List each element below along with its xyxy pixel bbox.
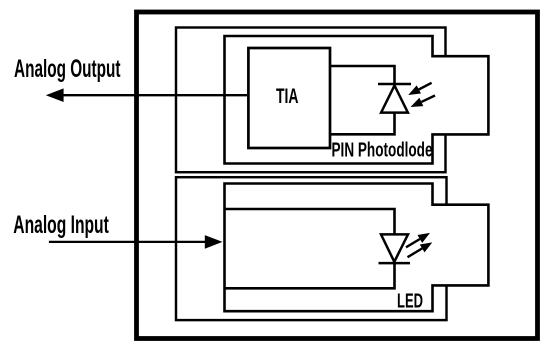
svg-text:LED: LED [397, 290, 423, 313]
svg-text:TIA: TIA [276, 84, 299, 108]
svg-text:Analog Input: Analog Input [13, 211, 109, 239]
svg-text:Analog Output: Analog Output [14, 55, 121, 83]
svg-text:PIN Photodlode: PIN Photodlode [332, 140, 433, 162]
